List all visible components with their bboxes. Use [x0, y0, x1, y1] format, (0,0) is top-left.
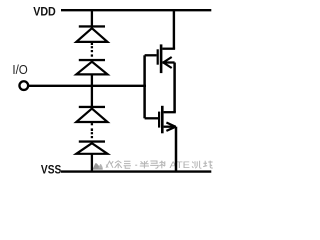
svg-text:I/O: I/O — [12, 62, 27, 77]
M1 source lead — [162, 61, 174, 63]
dotted wire D3-D4 — [91, 123, 93, 138]
pmos M1 — [145, 44, 176, 73]
diode D4 — [76, 140, 107, 153]
svg-text:ATE: ATE — [170, 159, 191, 170]
M2 gate bar — [158, 112, 160, 128]
svg-text:VSS: VSS — [41, 164, 62, 177]
VSS rail — [61, 170, 211, 172]
M1 gate bar — [157, 49, 159, 64]
watermark text 测试 — [192, 161, 213, 169]
wire M1 gate / I/O / M2 gate column — [143, 55, 146, 118]
wire M1 source to M2 drain — [173, 63, 176, 113]
M2 source arrow (points outward) — [166, 123, 175, 131]
dotted wire D1-D2 — [91, 43, 93, 57]
M1 drain lead — [162, 48, 175, 50]
M2 channel bar — [161, 106, 164, 134]
M2 gate lead — [145, 117, 158, 119]
M1 gate lead — [145, 54, 157, 56]
watermark logo — [93, 163, 103, 170]
svg-text:VDD: VDD — [33, 4, 56, 18]
wire I/O to gate column — [29, 85, 146, 87]
diode D2 — [76, 59, 107, 75]
nmos M2 — [145, 106, 176, 134]
I/O pad circle — [19, 81, 28, 90]
M2 source lead — [164, 126, 176, 128]
wire D2 to I/O line to D3 — [91, 74, 93, 106]
M2 drain lead — [164, 111, 176, 113]
wire D4 to VSS rail — [91, 154, 93, 172]
diode D1 — [76, 25, 107, 42]
M1 source arrow (points into channel) — [163, 57, 172, 68]
watermark text 公众号· — [106, 161, 137, 168]
VDD rail — [61, 9, 211, 11]
M1 channel bar — [160, 44, 163, 73]
wire M2 source to VSS rail — [175, 127, 178, 172]
watermark text 半导体 — [140, 161, 165, 169]
diode D3 — [76, 106, 107, 122]
wire VDD rail down to M1 drain — [173, 10, 175, 49]
wire VDD rail to D1 — [91, 10, 93, 26]
